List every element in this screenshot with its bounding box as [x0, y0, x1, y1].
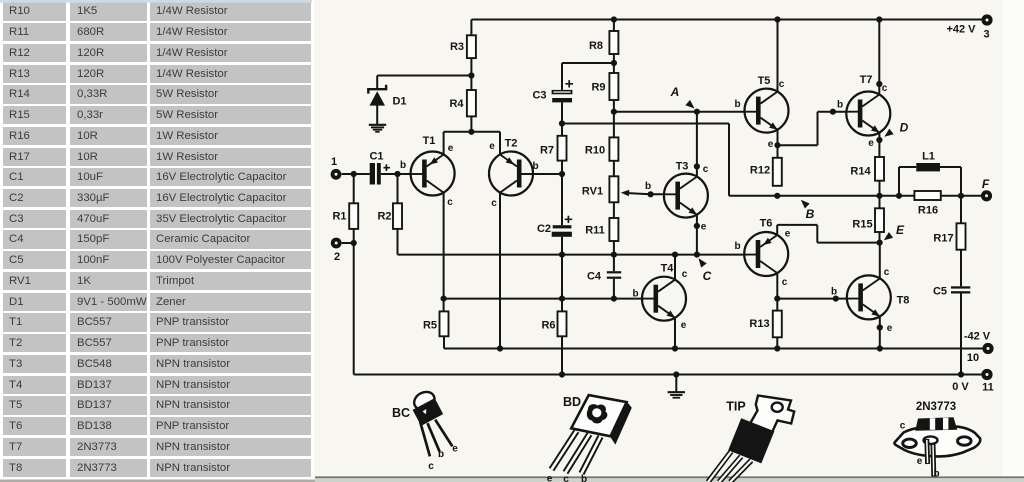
junction T7 emitter — [876, 137, 882, 143]
svg-text:T2: T2 — [505, 138, 518, 150]
junction terminal 2 — [351, 240, 357, 246]
junction emitter bus — [468, 129, 474, 135]
svg-text:T1: T1 — [423, 135, 436, 147]
wire T1 collector to R5 — [443, 193, 445, 312]
wire R2 top lead — [397, 174, 399, 203]
svg-text:e: e — [489, 141, 495, 152]
svg-text:C5: C5 — [933, 286, 947, 298]
wire C3 top lead — [561, 63, 563, 90]
transistor T5 — [745, 89, 789, 133]
capacitor C4 — [607, 271, 621, 273]
svg-text:2N3773: 2N3773 — [916, 401, 956, 413]
svg-text:b: b — [400, 160, 406, 171]
wire T5 emitter to R12 — [777, 130, 779, 158]
junction T1 collector / T4 base line — [441, 296, 447, 302]
svg-text:-42 V: -42 V — [964, 331, 991, 343]
svg-text:R3: R3 — [450, 41, 464, 53]
svg-text:c: c — [428, 461, 434, 472]
wire R10-RV1 link — [613, 161, 615, 177]
capacitor C3 — [552, 90, 573, 94]
wire R1 bottom to 0V corner — [353, 229, 355, 375]
node E arrow — [884, 232, 893, 240]
wire R2 bottom lead — [397, 229, 399, 255]
transistor T4 — [642, 277, 686, 321]
junction L1 right tap — [958, 193, 964, 199]
wire T7 collector to +42V rail — [878, 20, 880, 95]
svg-text:+42 V: +42 V — [946, 24, 976, 36]
junction R13 on -42V rail — [774, 345, 780, 351]
terminal 11 (0V) — [981, 369, 992, 380]
svg-text:R10: R10 — [585, 145, 605, 157]
wire 0V rail — [354, 374, 982, 376]
wire T6 collector node to T8 base — [777, 298, 847, 300]
svg-text:R8: R8 — [589, 40, 603, 52]
junction T5 emitter corner — [774, 142, 780, 148]
transistor T2 — [489, 152, 533, 196]
2N3773 pin labels — [900, 421, 940, 480]
node A arrow — [685, 100, 694, 109]
junction R14/R15 on B rail — [876, 193, 882, 199]
svg-text:b: b — [831, 287, 837, 298]
transistor T8 — [847, 275, 891, 319]
junction on +42V rail at T5 — [774, 16, 780, 22]
junction C5 on 0V rail — [958, 371, 964, 377]
wire node A drop to T3 collector — [696, 112, 698, 177]
junction T7 collector top — [876, 81, 882, 87]
resistor R12 — [773, 158, 782, 186]
wire R13 bottom lead — [776, 337, 778, 348]
wire R8 top lead — [613, 20, 615, 32]
node D arrow — [884, 129, 893, 137]
wire ground stub on 0V rail — [675, 375, 677, 392]
junction T3 emitter — [694, 223, 700, 229]
capacitor C3 plus sign — [565, 80, 573, 87]
wire R6 bottom to 0V rail — [561, 336, 563, 374]
svg-text:T3: T3 — [676, 161, 689, 173]
wire R1 top lead — [353, 174, 355, 203]
junction T4 emitter on -42V rail — [672, 345, 678, 351]
junction R12 bottom on B rail — [774, 193, 780, 199]
resistor R13 — [773, 311, 782, 338]
wire D1 tap to R3/R4 node — [377, 76, 471, 89]
terminal F output — [981, 190, 992, 201]
BC package drawing (TO-92) — [411, 388, 452, 456]
junction R1 top — [351, 171, 357, 177]
svg-text:c: c — [447, 197, 453, 208]
resistor R6 — [558, 311, 567, 336]
svg-text:e: e — [547, 474, 553, 482]
wire T5 emitter to T7 base — [778, 112, 847, 146]
node C arrow — [699, 258, 707, 267]
resistor R5 — [440, 311, 449, 336]
svg-text:e: e — [868, 138, 874, 149]
wire T4 emitter lead — [674, 318, 676, 349]
junction T3 collector bend — [694, 163, 700, 169]
svg-text:R16: R16 — [918, 205, 938, 217]
wire T1 collector node to T4 base — [444, 298, 642, 300]
resistor R4 — [467, 90, 476, 116]
wire +42V top rail — [471, 19, 982, 21]
2N3773 package drawing (TO-3) — [894, 417, 980, 476]
junction on +42V rail at R8 — [611, 16, 617, 22]
junction ground on 0V rail — [673, 371, 679, 377]
junction T8 base wire — [833, 296, 839, 302]
svg-text:A: A — [670, 85, 680, 99]
wire node B output rail — [729, 195, 981, 197]
wire node C rail — [398, 254, 745, 256]
wire T1 emitter lead — [443, 132, 445, 155]
svg-text:c: c — [884, 267, 890, 278]
junction R2 top — [394, 171, 400, 177]
wire R9 bottom to R10 — [613, 100, 615, 137]
svg-text:T8: T8 — [897, 295, 910, 307]
svg-text:R9: R9 — [591, 82, 605, 94]
resistor R10 — [609, 137, 618, 160]
transistor T3 — [664, 174, 708, 218]
wire R15 bottom to node E — [879, 232, 881, 243]
resistor R15 — [875, 208, 884, 232]
capacitor C2 — [553, 225, 572, 228]
wire R17 to C5 — [960, 250, 962, 287]
svg-text:b: b — [837, 100, 843, 111]
resistor R1 — [349, 203, 358, 229]
svg-text:c: c — [779, 79, 785, 90]
wire T6 emitter to node E — [777, 225, 879, 243]
wire T4 collector lead — [674, 255, 676, 280]
junction T7 base wire — [830, 109, 836, 115]
svg-text:0 V: 0 V — [952, 381, 969, 393]
wire terminal 2 stub — [342, 242, 354, 244]
svg-text:L1: L1 — [922, 151, 935, 163]
trimpot RV1 — [609, 176, 618, 202]
svg-text:e: e — [887, 323, 893, 334]
wire R7 top lead — [561, 124, 563, 136]
svg-text:C: C — [703, 269, 712, 283]
junction C4 bottom — [611, 296, 617, 302]
wire C1 to T1 base — [381, 173, 411, 175]
junction R11 bottom on C rail — [611, 252, 617, 258]
junction D1/R3/R4 — [468, 72, 474, 78]
resistor R16 — [914, 191, 940, 200]
junction L1 left tap — [896, 193, 902, 199]
svg-text:R12: R12 — [750, 165, 770, 177]
svg-text:R14: R14 — [850, 166, 871, 178]
svg-text:R1: R1 — [332, 211, 346, 223]
transistor T7 — [846, 92, 890, 136]
svg-text:c: c — [900, 421, 906, 432]
wire T2 collector to -42V rail — [499, 193, 501, 349]
svg-text:10: 10 — [967, 352, 979, 364]
wire R15 top lead — [879, 196, 881, 209]
resistor R2 — [393, 203, 402, 229]
junction R9 bottom — [611, 109, 617, 115]
resistor R9 — [609, 73, 618, 100]
svg-text:e: e — [785, 229, 791, 240]
capacitor C1 — [370, 163, 375, 185]
svg-text:T5: T5 — [758, 75, 771, 87]
junction on +42V rail at T7 — [876, 16, 882, 22]
trimpot RV1 wiper arrow — [621, 190, 630, 196]
svg-text:R4: R4 — [449, 98, 464, 110]
wire node A rail to T5 base — [614, 111, 745, 113]
wire D1 anode to ground — [376, 106, 378, 125]
BC pin labels — [428, 444, 458, 473]
resistor R3 — [467, 35, 476, 58]
svg-text:c: c — [882, 83, 888, 94]
svg-text:c: c — [703, 164, 709, 175]
transistor T6 — [744, 232, 788, 276]
svg-text:T6: T6 — [760, 218, 773, 230]
svg-text:b: b — [645, 181, 651, 192]
svg-text:E: E — [896, 223, 905, 237]
junction R6 on 0V rail — [559, 371, 565, 377]
svg-text:c: c — [682, 269, 688, 280]
svg-text:R5: R5 — [423, 320, 437, 332]
svg-text:1: 1 — [331, 156, 337, 168]
wire L1 parallel loop — [899, 167, 961, 196]
wire R5 bottom lead — [443, 336, 445, 348]
wire node E to T8 collector — [879, 243, 881, 279]
resistor R11 — [609, 218, 618, 241]
capacitor C5 — [951, 286, 970, 288]
zener diode D1 — [368, 85, 386, 106]
svg-text:D: D — [900, 121, 909, 135]
terminal 1 — [331, 169, 342, 180]
TIP package drawing (TO-220) — [708, 396, 794, 482]
ground symbol below D1 — [369, 125, 386, 132]
svg-text:b: b — [581, 474, 587, 482]
junction C3/R7 — [559, 120, 565, 126]
svg-text:e: e — [452, 444, 458, 455]
wire R14 bottom lead — [879, 181, 881, 196]
svg-text:c: c — [563, 474, 569, 482]
wire T2 emitter lead — [499, 132, 501, 155]
svg-text:b: b — [734, 99, 740, 110]
capacitor C1 plus sign — [384, 164, 391, 171]
svg-text:R13: R13 — [749, 318, 769, 330]
wire R4 bottom to emitter bus — [470, 116, 472, 131]
svg-text:R2: R2 — [377, 211, 391, 223]
junction C2 bottom on C rail — [559, 252, 565, 258]
wire C2 bottom to C rail and R6 — [561, 237, 563, 312]
svg-text:b: b — [933, 469, 939, 480]
svg-text:C1: C1 — [369, 151, 383, 163]
svg-text:R6: R6 — [541, 320, 555, 332]
wire C4 bottom lead — [613, 279, 615, 299]
terminal 2 — [331, 238, 342, 249]
wire T5 collector to +42V rail — [777, 20, 779, 92]
svg-text:R11: R11 — [585, 225, 605, 237]
BD package drawing (TO-126) — [552, 395, 632, 473]
node B arrow — [801, 200, 810, 209]
ground symbol on 0V rail — [668, 392, 685, 398]
table of components — [0, 2, 311, 20]
wire T2 base to R7 node — [522, 173, 562, 175]
junction R13 top / T8 base — [774, 296, 780, 302]
svg-text:e: e — [701, 222, 707, 233]
svg-text:b: b — [734, 241, 740, 252]
inductor L1 — [916, 163, 940, 171]
wire C3 tap to R8/R9 node — [562, 62, 614, 64]
terminal 10 (-42V) — [982, 343, 993, 354]
BD pin labels — [547, 474, 587, 482]
svg-text:BC: BC — [392, 406, 410, 420]
resistor R7 — [558, 136, 567, 161]
svg-text:c: c — [491, 198, 497, 209]
junction T8 emitter — [877, 324, 883, 330]
svg-text:b: b — [438, 449, 444, 460]
svg-text:C2: C2 — [537, 223, 551, 235]
svg-text:B: B — [806, 207, 815, 221]
svg-text:T4: T4 — [661, 263, 675, 275]
junction R7/T2 base — [559, 171, 565, 177]
wire R3 top lead — [470, 20, 472, 36]
svg-text:TIP: TIP — [726, 400, 745, 414]
svg-text:11: 11 — [982, 382, 994, 394]
svg-text:R15: R15 — [852, 219, 872, 231]
wire RV1 wiper to T3 base — [626, 193, 664, 194]
svg-text:e: e — [681, 320, 687, 331]
svg-text:e: e — [768, 139, 774, 150]
resistor R17 — [957, 223, 966, 249]
junction RV1 wiper wire — [648, 191, 654, 197]
wire -42V rail — [444, 348, 983, 350]
wire T6 collector to R13 — [776, 273, 778, 311]
wire input terminal 1 to C1 — [342, 173, 370, 175]
svg-text:b: b — [532, 161, 538, 172]
svg-text:R17: R17 — [933, 233, 953, 245]
wire C3 bottom lead — [561, 102, 563, 123]
junction T4 collector on C rail — [672, 252, 678, 258]
svg-text:C4: C4 — [587, 271, 602, 283]
wire C5 to 0V rail — [960, 294, 962, 375]
junction node E — [877, 240, 883, 246]
svg-text:e: e — [917, 456, 923, 467]
terminal 3 (+42V) — [981, 14, 992, 25]
svg-text:T7: T7 — [860, 74, 873, 86]
wire C3/R7 node to x729 — [562, 123, 729, 125]
wire T8 emitter to -42V rail — [879, 317, 881, 349]
wire x729 drop to node B rail — [728, 124, 730, 196]
resistor R8 — [609, 31, 618, 54]
svg-text:b: b — [632, 289, 638, 300]
wire R7 bottom to C2 — [561, 161, 563, 226]
svg-text:BD: BD — [563, 395, 581, 409]
wire R8-R9 link — [613, 54, 615, 73]
wire R3-R4 link — [470, 58, 472, 90]
schematic scan background — [314, 0, 1003, 478]
capacitor C2 plus sign — [565, 216, 573, 223]
svg-text:R7: R7 — [540, 145, 554, 157]
wire T1/T2 emitter bus — [444, 131, 500, 133]
svg-text:3: 3 — [983, 29, 989, 41]
junction node A — [694, 109, 700, 115]
wire R11 bottom lead — [613, 241, 615, 255]
junction C3 tap — [611, 60, 617, 66]
svg-text:F: F — [982, 177, 990, 191]
svg-text:RV1: RV1 — [582, 186, 603, 198]
wire R17 top lead — [960, 196, 962, 224]
wire RV1-R11 link — [613, 202, 615, 218]
junction node C — [694, 252, 700, 258]
resistor R14 — [875, 157, 884, 181]
junction T2 collector on -42V rail — [497, 345, 503, 351]
wire C4 top lead — [613, 255, 615, 272]
svg-text:2: 2 — [334, 251, 340, 263]
svg-text:C3: C3 — [532, 90, 546, 102]
junction R6 top — [559, 296, 565, 302]
wire T3 emitter lead — [696, 215, 698, 255]
svg-text:e: e — [448, 143, 454, 154]
junction T8 emitter on -42V rail — [877, 345, 883, 351]
svg-text:c: c — [782, 277, 788, 288]
transistor T1 — [411, 152, 455, 196]
svg-text:D1: D1 — [392, 96, 406, 108]
wire T7 emitter to R14 — [878, 133, 880, 157]
